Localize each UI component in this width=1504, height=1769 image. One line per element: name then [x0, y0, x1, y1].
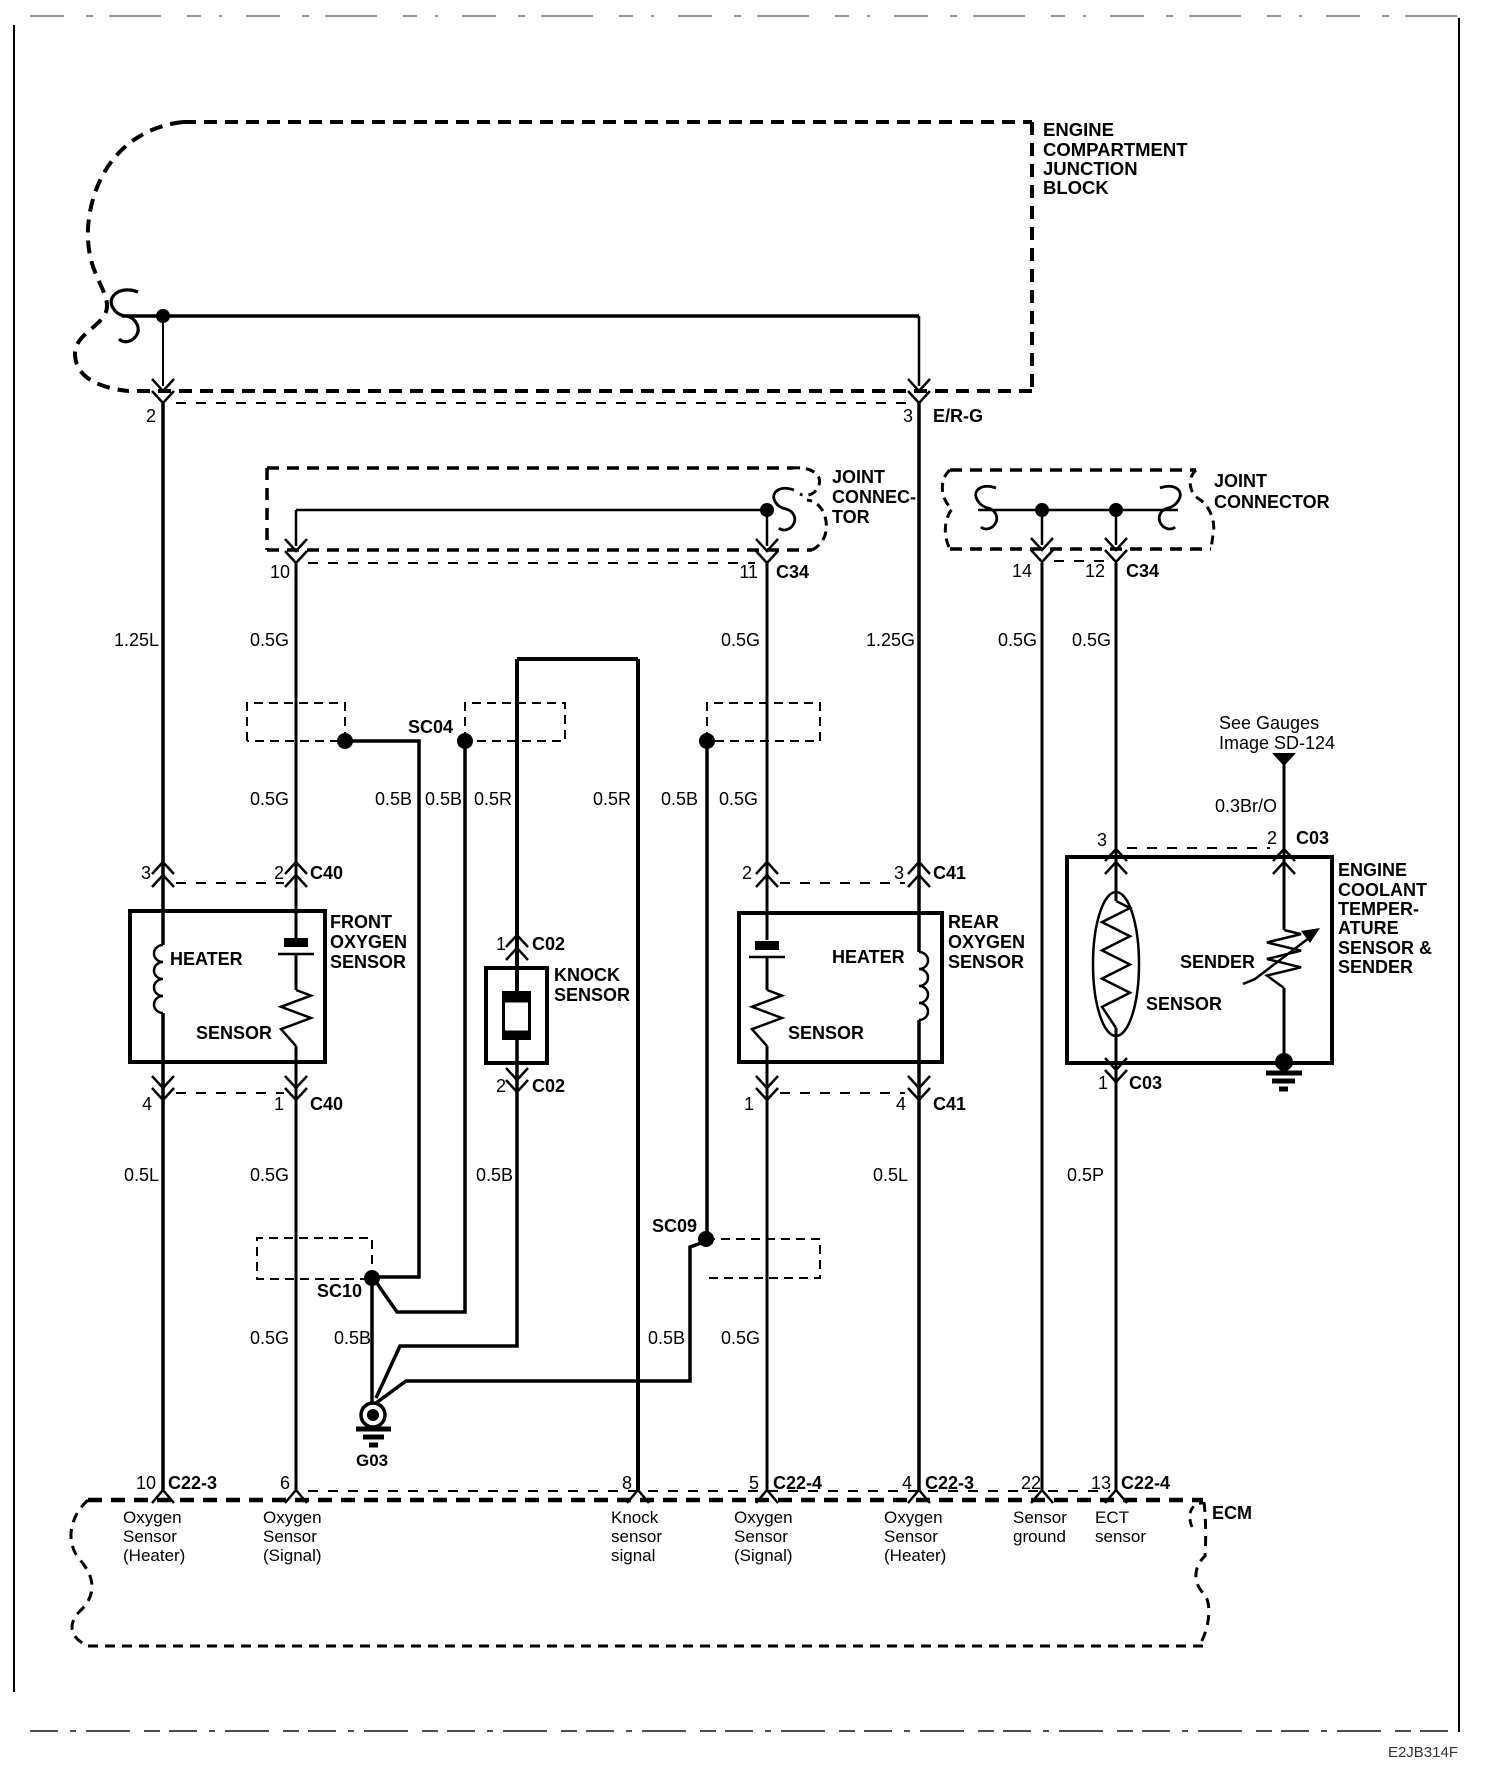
wire: sensor ground W10 (0.5G): [1041, 563, 1044, 1490]
wire-break curl right end: [1159, 486, 1180, 529]
svg-text:Oxygen: Oxygen: [884, 1508, 943, 1527]
label: Oxygen Sensor (Signal) pin5: [734, 1508, 793, 1565]
KNOCK SENSOR label: [554, 965, 630, 1005]
svg-text:BLOCK: BLOCK: [1043, 177, 1109, 198]
svg-text:SENSOR: SENSOR: [554, 985, 630, 1005]
wire: drop to pin 10: [295, 510, 298, 546]
svg-text:sensor: sensor: [1095, 1527, 1146, 1546]
joint connector (left) label: [832, 467, 916, 527]
ECM pin 8: [627, 1490, 649, 1503]
wire: drop to pin 14: [1041, 510, 1044, 545]
ECM pin 10 C22-3: [152, 1490, 174, 1503]
ECM pin 13 C22-4: [1105, 1490, 1127, 1503]
engine compartment junction block label: [1043, 119, 1188, 198]
connector pin 2 (junction block): [152, 379, 174, 391]
svg-text:TOR: TOR: [832, 507, 870, 527]
sender variable resistor: [1267, 930, 1301, 988]
svg-text:HEATER: HEATER: [170, 949, 243, 969]
svg-text:(Heater): (Heater): [123, 1546, 185, 1565]
svg-text:0.5G: 0.5G: [998, 630, 1037, 650]
svg-text:TEMPER-: TEMPER-: [1338, 899, 1419, 919]
svg-text:0.5R: 0.5R: [474, 789, 512, 809]
svg-text:C41: C41: [933, 1094, 966, 1114]
front sensor resistor: [281, 990, 311, 1046]
svg-text:6: 6: [280, 1473, 290, 1493]
ground G03 symbol: [356, 1403, 391, 1445]
See Gauges note: [1219, 713, 1335, 753]
svg-text:14: 14: [1012, 561, 1032, 581]
svg-text:1.25G: 1.25G: [866, 630, 915, 650]
ECM pin 6: [285, 1490, 307, 1503]
svg-text:C22-4: C22-4: [1121, 1473, 1170, 1493]
svg-text:0.5G: 0.5G: [250, 789, 289, 809]
svg-text:sensor: sensor: [611, 1527, 662, 1546]
svg-text:0.5L: 0.5L: [124, 1165, 159, 1185]
connector pin 3 C41: [908, 862, 930, 874]
splice SC04 dashed box (right): [465, 703, 565, 741]
svg-text:Sensor: Sensor: [123, 1527, 177, 1546]
svg-text:JOINT: JOINT: [1214, 471, 1267, 491]
svg-text:C40: C40: [310, 1094, 343, 1114]
svg-text:C03: C03: [1129, 1073, 1162, 1093]
svg-text:1: 1: [274, 1094, 284, 1114]
svg-text:SENSOR: SENSOR: [948, 952, 1024, 972]
svg-text:SENSOR: SENSOR: [330, 952, 406, 972]
wire: junction block feed, horizontal: [122, 314, 919, 318]
svg-text:Image SD-124: Image SD-124: [1219, 733, 1335, 753]
svg-text:ENGINE: ENGINE: [1043, 119, 1114, 140]
svg-text:Sensor: Sensor: [263, 1527, 317, 1546]
wire: front heater feed W1 (1.25L / 0.5L): [161, 403, 165, 945]
svg-text:5: 5: [749, 1473, 759, 1493]
svg-text:HEATER: HEATER: [832, 947, 905, 967]
svg-text:10: 10: [270, 562, 290, 582]
svg-text:Sensor: Sensor: [1013, 1508, 1067, 1527]
splice SC10 dashed box: [257, 1238, 372, 1279]
svg-text:Oxygen: Oxygen: [263, 1508, 322, 1527]
svg-text:22: 22: [1021, 1473, 1041, 1493]
rear oxygen sensor box: [739, 913, 942, 1062]
svg-text:ECT: ECT: [1095, 1508, 1129, 1527]
svg-text:2: 2: [742, 863, 752, 883]
svg-text:C34: C34: [776, 562, 809, 582]
svg-text:SENDER: SENDER: [1180, 952, 1255, 972]
rear heater coil: [919, 952, 928, 1020]
svg-text:1: 1: [496, 934, 506, 954]
dashed link pin3-pin2 C03: [1127, 847, 1270, 849]
ECT thermistor ellipse: [1093, 892, 1139, 1036]
wire: SC09 to ground: [376, 1242, 704, 1403]
dashed link pin2-pin3: [176, 402, 906, 404]
wire: rear heater W9 (1.25G / 0.5L): [917, 403, 921, 952]
connector pin 1 C02: [506, 935, 528, 947]
svg-text:3: 3: [903, 406, 913, 426]
svg-text:ground: ground: [1013, 1527, 1066, 1546]
svg-text:CONNECTOR: CONNECTOR: [1214, 492, 1330, 512]
svg-text:0.5P: 0.5P: [1067, 1165, 1104, 1185]
svg-text:0.5B: 0.5B: [661, 789, 698, 809]
wire: drop to pin 12: [1115, 510, 1118, 545]
svg-text:2: 2: [146, 406, 156, 426]
svg-text:KNOCK: KNOCK: [554, 965, 620, 985]
joint connector (left) dashed outline: [267, 468, 826, 550]
front heater coil: [154, 945, 163, 1013]
svg-text:SENSOR: SENSOR: [196, 1023, 272, 1043]
ECM pin 4 C22-3: [908, 1490, 930, 1503]
svg-text:10: 10: [136, 1473, 156, 1493]
connector pin 12 C34: [1105, 538, 1127, 550]
svg-text:C41: C41: [933, 863, 966, 883]
dashed link pin1-pin4 C41: [780, 1092, 905, 1094]
connector pin 4 C40: [152, 1076, 174, 1088]
rear sensor cell plate: [755, 941, 779, 950]
wire: knock return to splice SC10: [376, 1039, 517, 1398]
FRONT OXYGEN SENSOR label: [330, 912, 407, 972]
splice SC09 dashed box: [706, 1239, 820, 1278]
svg-text:0.5L: 0.5L: [873, 1165, 908, 1185]
connector pin 2 C02: [506, 1068, 528, 1080]
svg-text:COOLANT: COOLANT: [1338, 880, 1427, 900]
wire: 0.5B W3 from SC04-left to SC10: [345, 741, 419, 1277]
ECM pin 5 C22-4: [756, 1490, 778, 1503]
svg-text:12: 12: [1085, 561, 1105, 581]
wire: joint connector bus (right): [978, 509, 1178, 512]
arrow to gauges: [1272, 753, 1296, 766]
svg-text:0.5B: 0.5B: [375, 789, 412, 809]
joint connector (right) dashed outline: [942, 470, 1213, 549]
junction node pin 11: [760, 503, 774, 517]
svg-text:3: 3: [141, 863, 151, 883]
wire: rear signal W8 (0.5G): [766, 563, 769, 940]
svg-text:ATURE: ATURE: [1338, 918, 1399, 938]
front oxygen sensor box: [130, 911, 325, 1062]
ECT thermistor resistor: [1102, 901, 1130, 1028]
svg-text:0.5G: 0.5G: [250, 1165, 289, 1185]
svg-text:3: 3: [894, 863, 904, 883]
svg-text:0.5G: 0.5G: [250, 630, 289, 650]
label: ECT sensor pin13: [1095, 1508, 1146, 1546]
dashed link pin2-pin3 C41: [780, 882, 905, 884]
junction node pin 14: [1035, 503, 1049, 517]
connector pin 10 C34: [285, 539, 307, 551]
junction node pin 12: [1109, 503, 1123, 517]
page right border: [1458, 18, 1460, 1732]
svg-text:C22-3: C22-3: [925, 1473, 974, 1493]
label: Oxygen Sensor (Signal) pin6: [263, 1508, 322, 1565]
svg-text:4: 4: [902, 1473, 912, 1493]
svg-text:FRONT: FRONT: [330, 912, 392, 932]
label: Oxygen Sensor (Heater) pin4: [884, 1508, 946, 1565]
svg-text:Knock: Knock: [611, 1508, 659, 1527]
svg-text:0.5R: 0.5R: [593, 789, 631, 809]
svg-text:Sensor: Sensor: [734, 1527, 788, 1546]
svg-text:C02: C02: [532, 1076, 565, 1096]
svg-text:JUNCTION: JUNCTION: [1043, 158, 1138, 179]
wire: SC10 to ground stem: [370, 1278, 374, 1404]
dashed link pin10-pin11: [308, 562, 755, 564]
svg-text:0.3Br/O: 0.3Br/O: [1215, 796, 1277, 816]
ECM pin 22: [1031, 1490, 1053, 1503]
connector pin 2 C40: [285, 862, 307, 874]
connector pin 3 E/R-G (junction block): [908, 379, 930, 391]
ENGINE COOLANT TEMPERATURE SENSOR & SENDER label: [1338, 860, 1432, 977]
front sensor cell plate: [284, 938, 308, 947]
connector pin 3 C40: [152, 862, 174, 874]
svg-text:SENSOR: SENSOR: [1146, 994, 1222, 1014]
REAR OXYGEN SENSOR label: [948, 912, 1025, 972]
svg-text:SC04: SC04: [408, 717, 453, 737]
svg-text:CONNEC-: CONNEC-: [832, 487, 916, 507]
svg-text:0.5B: 0.5B: [476, 1165, 513, 1185]
svg-text:C40: C40: [310, 863, 343, 883]
connector pin 11 C34: [756, 539, 778, 551]
svg-text:E2JB314F: E2JB314F: [1388, 1744, 1458, 1761]
sender ground symbol: [1266, 1073, 1302, 1089]
svg-text:0.5G: 0.5G: [719, 789, 758, 809]
junction node on feed wire: [156, 309, 170, 323]
svg-text:SENSOR: SENSOR: [788, 1023, 864, 1043]
dashed link pin14-pin12: [1054, 560, 1104, 562]
dashed link pin3-pin2 C40: [176, 882, 284, 884]
connector pin 1 C40: [285, 1076, 307, 1088]
svg-text:0.5B: 0.5B: [334, 1328, 371, 1348]
splice SC10 node: [364, 1270, 380, 1286]
svg-text:G03: G03: [356, 1451, 388, 1470]
knock sensor piezo element: [502, 991, 531, 1040]
page top border: [30, 15, 1463, 17]
svg-text:2: 2: [496, 1076, 506, 1096]
svg-text:SC10: SC10: [317, 1281, 362, 1301]
wire: sender feed W12 (0.3Br/O): [1283, 763, 1286, 930]
svg-text:C22-4: C22-4: [773, 1473, 822, 1493]
label: Sensor ground pin22: [1013, 1508, 1067, 1546]
svg-text:C34: C34: [1126, 561, 1159, 581]
connector pin 2 C03: [1273, 849, 1295, 861]
svg-text:Oxygen: Oxygen: [734, 1508, 793, 1527]
svg-text:SENSOR &: SENSOR &: [1338, 938, 1432, 958]
svg-text:1: 1: [744, 1094, 754, 1114]
svg-text:See Gauges: See Gauges: [1219, 713, 1319, 733]
splice SC04 node (left): [337, 733, 353, 749]
svg-text:COMPARTMENT: COMPARTMENT: [1043, 139, 1188, 160]
joint connector (right) label: [1214, 471, 1330, 512]
sender ground node: [1275, 1053, 1293, 1071]
page left border: [13, 25, 15, 1692]
wire-break curl left end: [976, 486, 997, 529]
label: Oxygen Sensor (Heater) pin10: [123, 1508, 185, 1565]
wire: 0.5B W4 from SC04-right to SC10: [374, 741, 465, 1312]
connector pin 1 C41: [756, 1076, 778, 1088]
svg-text:Oxygen: Oxygen: [123, 1508, 182, 1527]
label: Knock sensor signal pin8: [611, 1508, 662, 1565]
svg-text:2: 2: [274, 863, 284, 883]
svg-text:signal: signal: [611, 1546, 655, 1565]
svg-text:SENDER: SENDER: [1338, 957, 1413, 977]
svg-text:1.25L: 1.25L: [114, 630, 159, 650]
connector pin 2 C41: [756, 862, 778, 874]
ECM dashed outline: [71, 1500, 1209, 1646]
knock sensor box: [486, 968, 547, 1063]
svg-text:11: 11: [739, 562, 758, 582]
splice SC09 node: [698, 1231, 714, 1247]
svg-text:C03: C03: [1296, 828, 1329, 848]
svg-text:3: 3: [1097, 830, 1107, 850]
splice SC04 dashed box (left): [247, 703, 345, 741]
svg-text:REAR: REAR: [948, 912, 999, 932]
svg-text:8: 8: [622, 1473, 632, 1493]
svg-text:13: 13: [1091, 1473, 1111, 1493]
svg-text:E/R-G: E/R-G: [933, 406, 983, 426]
wire: knock signal W6 (0.5R/0.5B) to ECM pin 8: [636, 659, 640, 1490]
svg-text:C02: C02: [532, 934, 565, 954]
splice node (rear 0.5B): [699, 733, 715, 749]
wire: drop to pin 3 E/R-G: [918, 316, 921, 386]
page bottom border: [30, 1730, 1460, 1732]
svg-text:ECM: ECM: [1212, 1503, 1252, 1523]
dashed link pin4-pin1 C40: [176, 1092, 284, 1094]
svg-text:0.5G: 0.5G: [721, 630, 760, 650]
svg-text:C22-3: C22-3: [168, 1473, 217, 1493]
svg-text:0.5G: 0.5G: [721, 1328, 760, 1348]
svg-text:OXYGEN: OXYGEN: [330, 932, 407, 952]
splice SC04 node (right): [457, 733, 473, 749]
svg-text:1: 1: [1098, 1073, 1108, 1093]
wire: drop to pin 11: [766, 510, 769, 546]
wire: joint connector bus (left): [296, 509, 767, 512]
svg-text:4: 4: [142, 1094, 152, 1114]
wire-break curl at left end: [111, 290, 138, 342]
wire: knock sensor loop top: [515, 659, 519, 991]
svg-text:0.5G: 0.5G: [1072, 630, 1111, 650]
svg-text:0.5B: 0.5B: [648, 1328, 685, 1348]
connector pin 14 C34: [1031, 538, 1053, 550]
svg-text:JOINT: JOINT: [832, 467, 885, 487]
svg-text:ENGINE: ENGINE: [1338, 860, 1407, 880]
wire: 0.5B W7 from splice to SC09: [705, 741, 709, 1239]
connector pin 3 C03: [1105, 849, 1127, 861]
svg-text:4: 4: [896, 1094, 906, 1114]
dashed link ECM pins: [308, 1490, 1110, 1492]
sender arrow: [1243, 938, 1309, 984]
splice box near rear signal: [707, 703, 820, 741]
wire: ECT feed W11 (0.5G / 0.5P): [1115, 563, 1118, 901]
svg-text:Sensor: Sensor: [884, 1527, 938, 1546]
svg-text:SC09: SC09: [652, 1216, 697, 1236]
svg-text:OXYGEN: OXYGEN: [948, 932, 1025, 952]
engine coolant temperature sensor box: [1067, 857, 1332, 1063]
svg-text:0.5G: 0.5G: [250, 1328, 289, 1348]
svg-text:0.5B: 0.5B: [425, 789, 462, 809]
svg-text:2: 2: [1267, 828, 1277, 848]
engine compartment junction block (dashed outline): [75, 122, 1032, 391]
rear sensor resistor: [752, 990, 782, 1046]
wire: drop to pin 2: [162, 316, 164, 386]
svg-text:(Signal): (Signal): [263, 1546, 322, 1565]
svg-text:(Heater): (Heater): [884, 1546, 946, 1565]
connector pin 4 C41: [908, 1076, 930, 1088]
wire: front signal W2 (0.5G): [295, 563, 298, 938]
svg-text:(Signal): (Signal): [734, 1546, 793, 1565]
wire-break curl right of node: [774, 488, 795, 530]
connector pin 1 C03: [1105, 1058, 1127, 1070]
